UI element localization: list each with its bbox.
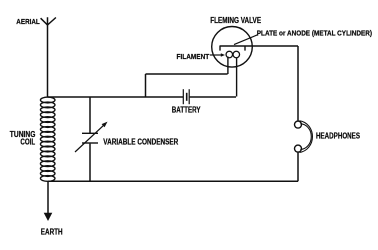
- wire aerial down to top bus: [47, 25, 49, 97]
- pointer arrow to filament: [210, 53, 225, 57]
- plate/anode ticks: [220, 46, 245, 51]
- aerial symbol: [41, 17, 56, 25]
- wire earth lead: [47, 181, 49, 213]
- svg-text:FILAMENT: FILAMENT: [177, 52, 210, 61]
- wire top bus left (coil to battery): [48, 96, 183, 98]
- svg-text:BATTERY: BATTERY: [172, 106, 201, 115]
- svg-text:VARIABLE CONDENSER: VARIABLE CONDENSER: [103, 137, 178, 146]
- variable condenser arrow: [75, 122, 108, 152]
- wire condenser branch lower: [89, 144, 91, 182]
- Fleming valve V1 envelope: [212, 27, 253, 68]
- wire upper segment y=74: [146, 73, 228, 75]
- headphones band: [300, 121, 313, 153]
- svg-text:FLEMING VALVE: FLEMING VALVE: [210, 16, 261, 25]
- filament lead left: [227, 57, 229, 75]
- filament element loops: [226, 51, 240, 58]
- wire plate lead to right rail: [220, 45, 299, 47]
- pointer line to plate: [234, 35, 258, 45]
- battery B1: [183, 89, 190, 104]
- wire top bus right (battery to valve lead): [190, 96, 236, 98]
- headphones earpiece bottom: [295, 145, 302, 152]
- variable condenser C1 plates: [82, 133, 98, 143]
- svg-text:HEADPHONES: HEADPHONES: [316, 131, 361, 140]
- svg-text:PLATE or ANODE (METAL CYLINDER: PLATE or ANODE (METAL CYLINDER): [257, 29, 373, 38]
- headphones earpiece top: [295, 121, 302, 128]
- wire condenser branch upper: [89, 97, 91, 133]
- wire bottom bus: [48, 180, 298, 182]
- svg-text:EARTH: EARTH: [41, 228, 63, 237]
- wire right rail lower: [297, 152, 299, 181]
- wire vertical drop x=145.5: [145, 74, 147, 97]
- svg-text:COIL: COIL: [20, 138, 35, 147]
- wire right rail upper: [297, 46, 299, 121]
- earth arrowhead: [44, 213, 53, 221]
- tuning coil L: [40, 97, 55, 181]
- filament lead right: [236, 58, 238, 97]
- svg-text:AERIAL: AERIAL: [16, 17, 40, 26]
- label TUNING COIL: [10, 130, 36, 147]
